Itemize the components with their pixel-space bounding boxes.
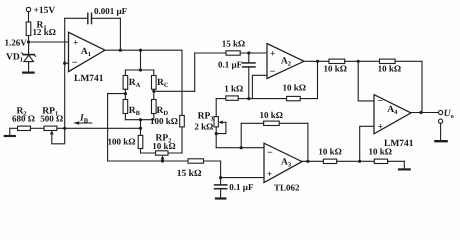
svg-text:RB: RB	[129, 106, 141, 117]
svg-text:LM741: LM741	[384, 139, 414, 149]
svg-text:Uo: Uo	[444, 109, 454, 120]
svg-text:10 kΩ: 10 kΩ	[283, 83, 306, 93]
svg-text:100 kΩ: 100 kΩ	[150, 116, 178, 126]
svg-text:+15V: +15V	[34, 6, 56, 16]
svg-text:500 Ω: 500 Ω	[40, 114, 63, 124]
svg-text:1 kΩ: 1 kΩ	[224, 83, 243, 93]
svg-text:0.1 µF: 0.1 µF	[218, 60, 243, 70]
svg-text:10 kΩ: 10 kΩ	[318, 147, 341, 157]
svg-text:680 Ω: 680 Ω	[12, 114, 35, 124]
svg-text:−: −	[72, 57, 78, 68]
svg-text:TL062: TL062	[274, 183, 300, 193]
svg-text:+: +	[270, 50, 275, 60]
svg-text:15 kΩ: 15 kΩ	[177, 169, 202, 179]
svg-text:RA: RA	[129, 78, 141, 89]
svg-text:−: −	[267, 147, 273, 158]
svg-text:10 kΩ: 10 kΩ	[324, 63, 347, 73]
svg-text:10 kΩ: 10 kΩ	[378, 63, 401, 73]
svg-text:100 kΩ: 100 kΩ	[108, 137, 136, 147]
svg-text:RC: RC	[157, 78, 169, 89]
svg-text:0.001 µF: 0.001 µF	[94, 6, 128, 16]
svg-text:+: +	[378, 123, 383, 133]
svg-text:10 kΩ: 10 kΩ	[152, 141, 175, 151]
svg-text:0.1 µF: 0.1 µF	[229, 182, 254, 192]
svg-text:1.26V: 1.26V	[5, 38, 28, 48]
svg-text:IB: IB	[79, 113, 89, 124]
svg-text:VD1: VD1	[6, 53, 23, 64]
svg-text:12 kΩ: 12 kΩ	[33, 27, 56, 37]
svg-text:−: −	[270, 67, 276, 78]
svg-text:2 kΩ: 2 kΩ	[194, 122, 213, 132]
svg-text:LM741: LM741	[74, 74, 104, 84]
svg-text:10 kΩ: 10 kΩ	[260, 110, 283, 120]
svg-text:−: −	[377, 96, 383, 107]
svg-text:+: +	[73, 39, 78, 49]
svg-text:15 kΩ: 15 kΩ	[222, 38, 245, 48]
svg-text:+: +	[267, 170, 272, 180]
